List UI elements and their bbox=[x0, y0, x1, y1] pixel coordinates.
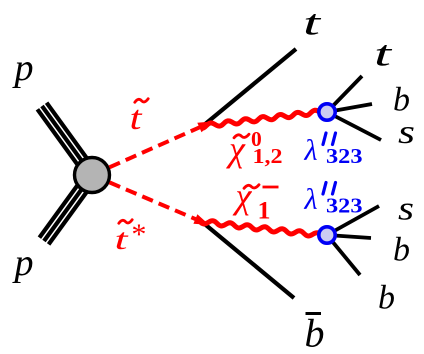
svg-text:λ: λ bbox=[304, 183, 318, 216]
svg-text:1,2: 1,2 bbox=[253, 144, 283, 168]
svg-text:λ: λ bbox=[304, 134, 318, 167]
svg-text:1: 1 bbox=[258, 196, 271, 225]
svg-text:p: p bbox=[12, 47, 34, 89]
svg-text:b: b bbox=[378, 280, 395, 317]
svg-text:b: b bbox=[393, 232, 410, 269]
svg-text:s: s bbox=[398, 114, 415, 151]
svg-text:χ: χ bbox=[233, 176, 253, 216]
svg-text:s: s bbox=[398, 191, 414, 228]
svg-text:b: b bbox=[393, 82, 410, 119]
svg-text:323: 323 bbox=[326, 194, 363, 218]
svg-text:p: p bbox=[12, 242, 34, 284]
svg-text:t: t bbox=[303, 3, 322, 43]
svg-text:t: t bbox=[115, 223, 129, 256]
svg-text:t: t bbox=[130, 100, 144, 137]
svg-text:t: t bbox=[374, 34, 393, 74]
svg-text:*: * bbox=[130, 218, 145, 251]
svg-text:b: b bbox=[305, 311, 325, 354]
svg-text:323: 323 bbox=[326, 144, 363, 168]
